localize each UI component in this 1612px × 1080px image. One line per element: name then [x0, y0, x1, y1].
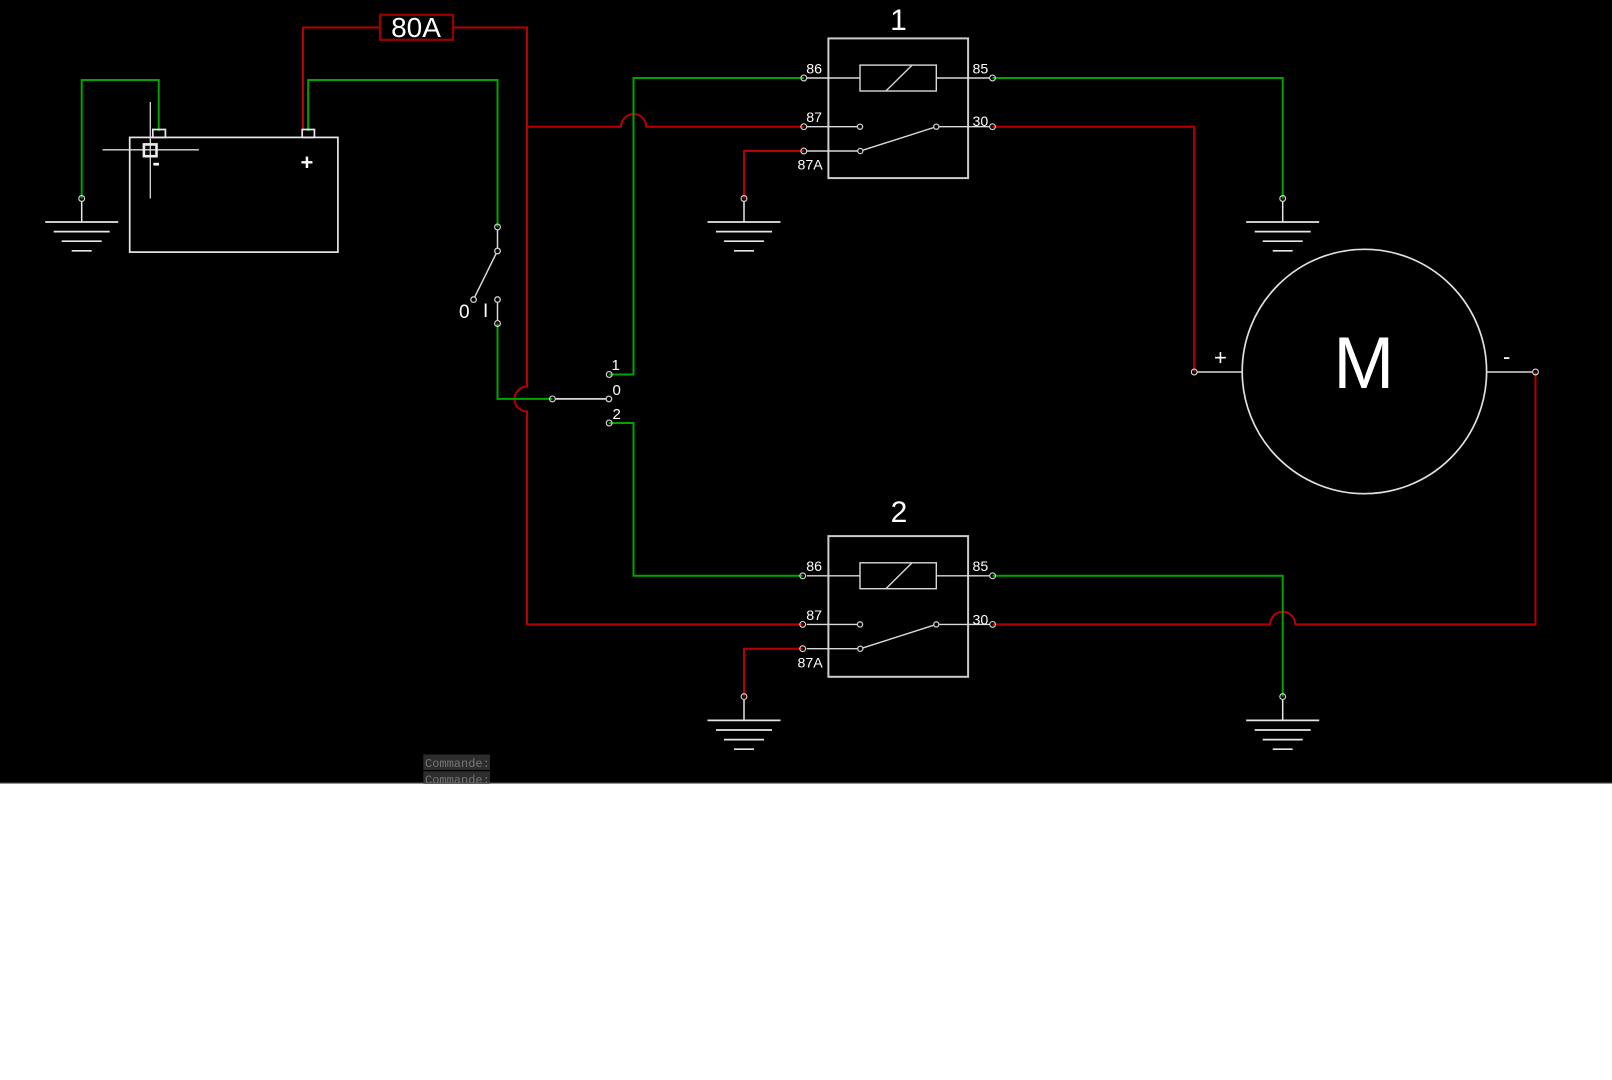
ground G5 symbol [1246, 700, 1319, 749]
switch S1 lower contact and lead [495, 297, 501, 320]
svg-text:0: 0 [459, 302, 470, 323]
wire: relay 1 pin 85 to ground G3 (green) [993, 78, 1283, 199]
relay K1 terminal node pin 85 [990, 75, 996, 81]
svg-text:1: 1 [612, 357, 620, 374]
command prompt label "Commande:" line 1 [423, 755, 490, 771]
selector SW2 label "1" [612, 357, 620, 374]
ground G2 terminal node (relay K1 87A) [741, 196, 747, 202]
wire: selector position 1 to relay 1 pin 86 (green) [609, 78, 804, 375]
wire: battery positive to fuse (red) [303, 28, 379, 132]
fuse F1 value label "80A" [391, 12, 441, 43]
selector SW2 label "0" [613, 382, 621, 399]
svg-text:87: 87 [806, 608, 822, 624]
wire: battery positive to switch 0/I (green) [308, 80, 497, 227]
relay K2 terminal node pin 86 [800, 573, 806, 579]
relay K1 pin label 86 [806, 61, 822, 77]
relay K2 terminal node pin 30 [990, 622, 996, 628]
relay K2 designator "2" [891, 496, 908, 529]
wire: relay 2 pin 85 to ground G5 (green) [993, 576, 1283, 697]
relay K2 pin 86 lead [807, 575, 860, 577]
relay K2 pin label 85 [973, 559, 989, 575]
svg-text:+: + [1214, 345, 1227, 370]
motor M1 positive lead [1197, 371, 1242, 373]
motor M1 letter "M" [1333, 323, 1394, 404]
selector SW2 label "2" [613, 406, 621, 423]
motor M1 body circle [1242, 249, 1486, 493]
relay K1 pin label 30 [973, 114, 989, 130]
relay K2 pin 85 lead [936, 575, 989, 577]
relay K1 pin 87 lead and contact [807, 124, 863, 129]
switch S1 top terminal node [495, 224, 501, 230]
battery BT1 body [130, 137, 338, 252]
svg-text:87A: 87A [798, 158, 824, 174]
wire: battery negative to ground G1 (green) [82, 80, 159, 199]
svg-text:0: 0 [613, 382, 621, 399]
relay K2 terminal node pin 85 [990, 573, 996, 579]
wire: fuse output down main red rail to relay 2 pin 87 (red, hop over green at selector row) [454, 28, 803, 625]
relay K1 pin label 85 [973, 61, 989, 77]
wire: relay 2 pin 87A to ground G4 (red) [744, 649, 803, 697]
selector SW2 position 2 terminal node [606, 420, 612, 426]
command prompt label "Commande:" line 2 [423, 771, 490, 787]
relay K2 pin label 30 [973, 613, 989, 629]
svg-text:86: 86 [806, 559, 822, 575]
battery BT1 "+" polarity label [301, 150, 314, 175]
ground G1 terminal node (battery negative) [79, 196, 85, 202]
battery BT1 negative terminal [153, 130, 166, 138]
ground G2 symbol [708, 202, 781, 251]
fuse F1 body [380, 15, 453, 40]
relay K1 pin 86 lead [807, 77, 860, 79]
relay K2 pin 30 contact and lead [934, 622, 990, 627]
relay K2 pin 87 lead and contact [807, 622, 863, 627]
relay K2 pin label 87A [798, 655, 824, 671]
svg-text:87: 87 [806, 110, 822, 126]
relay K1 designator "1" [890, 4, 907, 37]
selector SW2 position 1 terminal node [606, 372, 612, 378]
motor M1 "+" label [1214, 345, 1227, 370]
relay K1 pin 30 contact and lead [934, 124, 990, 129]
motor M1 positive terminal node [1191, 369, 1197, 375]
switch S1 bottom terminal node [495, 321, 501, 327]
motor M1 negative terminal node [1533, 369, 1539, 375]
relay K1 terminal node pin 87A [801, 148, 807, 154]
battery BT1 positive terminal [302, 130, 314, 138]
svg-text:M: M [1333, 323, 1394, 404]
relay K1 terminal node pin 86 [801, 75, 807, 81]
svg-text:86: 86 [806, 61, 822, 77]
ground G5 terminal node (relay K2 85) [1280, 694, 1286, 700]
ground G3 symbol [1246, 202, 1319, 251]
svg-text:85: 85 [973, 559, 989, 575]
relay K2 pin label 86 [806, 559, 822, 575]
svg-text:80A: 80A [391, 12, 441, 43]
relay K1 pin label 87 [806, 110, 822, 126]
svg-text:-: - [1503, 344, 1510, 369]
svg-text:+: + [301, 150, 314, 175]
wire: motor - to relay 2 pin 30 (red, hop over green vertical) [993, 372, 1536, 624]
relay K2 pin label 87 [806, 608, 822, 624]
ground G3 terminal node (relay K1 85 / above motor) [1280, 196, 1286, 202]
relay K1 pin label 87A [798, 158, 824, 174]
wire: switch 0/I to selector common (green) [498, 324, 553, 399]
wire: selector position 2 to relay 2 pin 86 (green) [609, 423, 803, 576]
switch S1 blade (open, at 0) [471, 254, 496, 303]
relay K1 terminal node pin 30 [990, 124, 996, 130]
selection crosshair on battery negative terminal [103, 102, 199, 199]
relay K2 switch blade 87A-30 [863, 625, 934, 648]
svg-text:30: 30 [973, 114, 989, 130]
svg-text:I: I [483, 301, 488, 322]
relay K2 terminal node pin 87 [800, 622, 806, 628]
relay K1 body outline [828, 38, 968, 178]
schematic black canvas [0, 0, 1612, 784]
svg-text:85: 85 [973, 61, 989, 77]
svg-text:87A: 87A [798, 655, 824, 671]
relay K2 body outline [828, 536, 968, 677]
switch S1 label "0" [459, 302, 470, 323]
svg-text:2: 2 [891, 496, 908, 529]
relay K2 pin 87A lead and contact [807, 646, 863, 651]
relay K1 pin 87A lead and contact [807, 148, 863, 153]
ground G4 symbol [708, 700, 781, 749]
relay K2 coil [860, 563, 936, 589]
switch S1 label "I" [483, 301, 488, 322]
svg-text:30: 30 [973, 613, 989, 629]
wire: red branch to relay 1 pin 87 (hop over green vertical) [527, 114, 804, 127]
switch S1 upper lead [495, 230, 501, 254]
svg-text:Commande:: Commande: [425, 757, 490, 771]
motor M1 negative lead [1487, 371, 1533, 373]
svg-text:1: 1 [890, 4, 907, 37]
selector SW2 common terminal node [550, 396, 556, 402]
motor M1 "-" label [1503, 344, 1510, 369]
ground G4 terminal node (relay K2 87A) [741, 694, 747, 700]
battery BT1 "-" polarity label [153, 150, 160, 175]
wire: relay 1 pin 30 to motor + (red) [993, 127, 1195, 372]
relay K1 pin 85 lead [936, 77, 989, 79]
bottom white panel [0, 783, 1612, 1080]
relay K1 terminal node pin 87 [801, 124, 807, 130]
ground G1 symbol [45, 202, 118, 251]
svg-text:2: 2 [613, 406, 621, 423]
relay K1 coil [860, 65, 936, 91]
relay K1 switch blade 87A-30 [863, 128, 934, 151]
selector SW2 blade (at position 0) [556, 396, 612, 402]
relay K2 terminal node pin 87A [800, 646, 806, 652]
wire: relay 1 pin 87A to ground G2 (red) [744, 151, 804, 199]
